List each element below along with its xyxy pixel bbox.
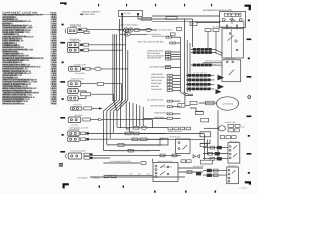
bus turn right to splice rows — [181, 92, 194, 96]
left wire bus (upper) — [116, 34, 118, 100]
connector C1 — [68, 28, 78, 34]
C9 label boxes — [80, 132, 85, 135]
mid vertical group x126-144 — [125, 101, 127, 127]
bus line down to mid connector pair — [184, 92, 186, 104]
row y150.8 — [110, 150, 150, 152]
svg-text:FIELD RELAY: FIELD RELAY — [151, 79, 163, 82]
corner mark bottom-left — [63, 183, 69, 188]
shared label box for C5/C6 — [81, 93, 91, 96]
connector row boxes above VR1 — [205, 28, 211, 31]
extra boxes row y160 — [181, 160, 186, 163]
K1 feed verticals — [204, 134, 206, 160]
relay K2 — [227, 167, 239, 184]
connector C8 — [68, 117, 81, 123]
row y133.5 — [125, 132, 131, 135]
splice row into VR1 a — [191, 48, 216, 50]
wire feeding U1 — [152, 15, 220, 17]
svg-text:L-01217: L-01217 — [240, 186, 248, 189]
connector C9 row2 — [68, 137, 80, 142]
wires from SW1 to K2 — [178, 167, 203, 169]
svg-text:. . . . . . .: . . . . . . . — [33, 15, 41, 17]
alternator A1 ellipse — [217, 97, 239, 110]
vertical drop to bottom bus — [151, 159, 153, 163]
connector C10 — [68, 153, 82, 159]
feed rows into K2 — [203, 169, 227, 171]
field relay box K3 — [222, 60, 241, 82]
battery feed label boxes — [228, 124, 234, 127]
svg-text:ENGINE HARNESS: ENGINE HARNESS — [82, 11, 101, 14]
convergence arrows into alternator — [218, 75, 225, 81]
fusible link FL1 — [118, 29, 124, 31]
connector C3 — [69, 67, 81, 72]
svg-text:IGNITION SWITCH: IGNITION SWITCH — [158, 160, 173, 163]
battery feed component — [204, 127, 219, 129]
voltage regulator box VR1 — [222, 29, 243, 58]
connector symbol pair mid — [178, 104, 185, 108]
staircase turns to the right — [103, 150, 160, 152]
feed stubs from top boxes to splice rows — [207, 31, 209, 49]
svg-text:RED WHT: RED WHT — [142, 18, 150, 21]
svg-text:8-16: 8-16 — [52, 102, 57, 105]
wire y156 with connector pair — [107, 154, 181, 156]
legend table: component location index — [2, 12, 57, 106]
corner mark top-right — [244, 5, 250, 11]
wires lower right — [200, 140, 210, 144]
connector C6 (lower of pair) — [68, 96, 79, 101]
row y128.5 label boxes right — [168, 127, 173, 130]
junction box JB — [200, 132, 211, 137]
alternator/regulator box U1 — [220, 12, 246, 28]
fusible link lower row — [124, 33, 130, 37]
connector C2 row 2 — [68, 48, 80, 53]
row y127.7 labels — [133, 126, 139, 129]
splice row alt D — [186, 88, 214, 90]
top edge section ticks — [98, 4, 99, 7]
svg-text:BATT FEED CIRCUIT WHT RED: BATT FEED CIRCUIT WHT RED — [138, 41, 164, 44]
extra verticals from TO-IGN row — [112, 34, 114, 101]
U1 pin stubs down to VR1 — [226, 27, 228, 29]
svg-text:SENSE LINE: SENSE LINE — [151, 82, 162, 85]
wires C2 to bus — [89, 44, 126, 46]
wires below alternator left — [190, 108, 203, 112]
svg-text:GROUND: GROUND — [151, 85, 160, 88]
fusible link label boxes — [135, 29, 140, 32]
bus diagonal shift — [103, 100, 116, 150]
right mid bus verticals — [183, 19, 185, 92]
connector C7 — [71, 107, 83, 110]
wire into U1 left — [196, 21, 220, 23]
corner mark top-left of diagram — [60, 2, 67, 4]
svg-text:CHARGE LAMP: CHARGE LAMP — [74, 63, 87, 66]
splice row alt C — [186, 83, 214, 85]
left gap marks — [60, 42, 65, 44]
C8 wire extension to diode drop — [104, 120, 153, 128]
bottom edge section ticks — [99, 186, 101, 188]
connector C5 (small, upper of pair) — [68, 89, 79, 94]
svg-text:BATTERY SENSE: BATTERY SENSE — [151, 104, 166, 107]
wire into alternator left — [199, 102, 217, 104]
svg-text:. . . . . . . . . . . . .: . . . . . . . . . . . . . — [20, 103, 35, 105]
svg-text:GEN FIELD CIRCUIT: GEN FIELD CIRCUIT — [205, 59, 221, 62]
wire C1 to regulator rows — [87, 29, 152, 31]
C1 label boxes — [78, 28, 81, 30]
mid group bends — [126, 126, 130, 129]
svg-text:BAT: BAT — [242, 125, 245, 128]
svg-text:LAMP DRIVER: LAMP DRIVER — [151, 73, 164, 76]
horn relay K1 — [228, 143, 240, 164]
connector C2 row 1 — [68, 42, 80, 47]
alternator output wire down — [217, 110, 219, 160]
extra bus verticals from C4/C5 — [120, 84, 122, 100]
svg-text:FUSE TAP: FUSE TAP — [73, 104, 82, 107]
splice row alt A — [186, 74, 214, 76]
connector C9 row1 — [68, 131, 80, 136]
feed wire y21.5 to VR1 right — [152, 22, 244, 29]
svg-text:VOLTMETER FEED: VOLTMETER FEED — [149, 65, 165, 68]
svg-text:AMMETER FEED: AMMETER FEED — [71, 77, 85, 80]
relay block mid (x175-190) — [176, 139, 191, 154]
right edge binder dashes — [247, 39, 252, 41]
C2 label boxes row2 — [80, 49, 83, 51]
wire from fuse left pin down — [121, 15, 123, 28]
svg-text:BLK WHT GRN: BLK WHT GRN — [81, 13, 95, 16]
splice row into K3 — [191, 64, 216, 66]
splice row into VR1 b — [191, 52, 216, 54]
fuse block FB1 — [119, 11, 143, 17]
corner mark bottom-right — [245, 181, 251, 184]
svg-text:IGN BALLAST: IGN BALLAST — [151, 88, 163, 91]
row y145 — [118, 144, 124, 147]
C1 lower stub — [77, 31, 84, 33]
small box left mid (x160 y138) — [160, 138, 168, 145]
svg-text:ALT OUTPUT STUD: ALT OUTPUT STUD — [147, 99, 164, 102]
C2 label boxes row1 — [80, 44, 83, 46]
double connector box row y67 — [165, 66, 171, 69]
row y139.4 — [132, 138, 138, 141]
diamond junctions — [193, 155, 196, 158]
svg-text:GROUND STRAP: GROUND STRAP — [147, 57, 162, 60]
svg-text:ALTERNATOR: ALTERNATOR — [222, 102, 234, 105]
svg-text:IGN FEED: IGN FEED — [74, 114, 83, 117]
svg-text:RESISTOR WIRE: RESISTOR WIRE — [151, 76, 166, 79]
connector C4 — [68, 81, 81, 86]
instrument harness bottom bus — [90, 176, 185, 178]
ignition switch SW1 — [153, 163, 178, 182]
splice row alt B — [186, 79, 214, 81]
svg-text:REGULATOR: REGULATOR — [225, 57, 236, 60]
wire from fuse right pin to right bus — [138, 15, 192, 19]
feed rows into K1 — [203, 146, 228, 148]
